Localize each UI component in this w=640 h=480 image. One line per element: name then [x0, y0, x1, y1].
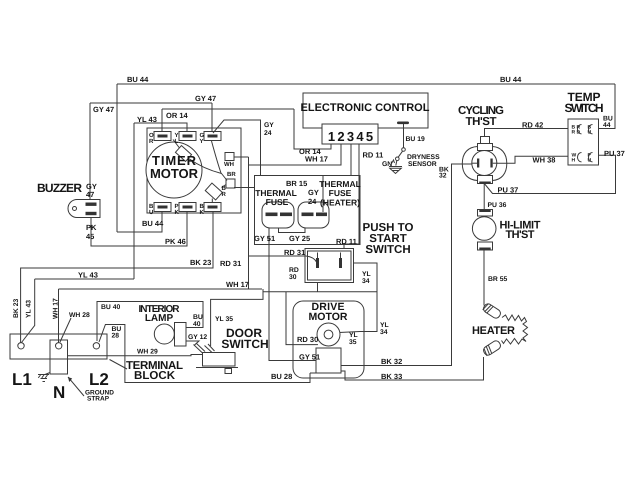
thermal fuse heater body [298, 202, 329, 228]
svg-text:K: K [175, 209, 180, 216]
thermal fuse left contacts [266, 213, 293, 217]
svg-text:GY 47: GY 47 [195, 94, 216, 103]
wire PU37 loop cycling to temp switch [484, 155, 615, 193]
timer terminal WH [225, 153, 234, 161]
timer terminal GY [204, 132, 221, 141]
svg-text:BK 23: BK 23 [13, 299, 20, 318]
dryness sensor contact top [402, 148, 406, 152]
svg-text:L: L [175, 138, 179, 145]
svg-text:24: 24 [264, 130, 272, 137]
svg-text:FUSE: FUSE [266, 197, 289, 207]
wire RD42 temp switch to cycling [485, 129, 569, 137]
svg-text:H: H [572, 158, 576, 164]
svg-text:WH 38: WH 38 [533, 156, 556, 165]
svg-text:K: K [200, 209, 205, 216]
wire GY47 vertical to buzzer [89, 103, 91, 201]
svg-text:BR 55: BR 55 [488, 276, 507, 283]
wire YL43 lower horizontal [35, 278, 134, 280]
wire WH28 label pointer to N [60, 318, 71, 342]
svg-text:GY: GY [264, 122, 274, 129]
timer terminal BU [154, 203, 171, 212]
hi-limit thermostat body [472, 217, 496, 241]
temp switch box [568, 119, 599, 165]
heater top lug [482, 302, 502, 319]
svg-text:GY 51: GY 51 [299, 353, 320, 362]
wire BR15 stub timer BR to thermal fuse box [234, 187, 255, 189]
drive motor rounded box [293, 301, 364, 378]
svg-text:BK 23: BK 23 [190, 258, 211, 267]
wire RD30 plunger stub down from push-to-start [317, 283, 319, 292]
hi-limit thermostat bottom block [478, 242, 493, 250]
timer cam follower 1 [175, 146, 191, 162]
svg-text:44: 44 [603, 122, 611, 129]
svg-text:LAMP: LAMP [145, 313, 174, 324]
svg-text:WH: WH [224, 161, 234, 168]
svg-text:FUSE: FUSE [329, 188, 352, 198]
svg-text:32: 32 [439, 173, 447, 180]
wire GY47 vertical into timer GY terminal [211, 103, 213, 131]
svg-text:RD 31: RD 31 [220, 259, 241, 268]
svg-text:BK 33: BK 33 [381, 372, 402, 381]
svg-text:Y: Y [200, 138, 204, 145]
timer terminal BK [204, 203, 221, 212]
svg-text:R: R [572, 130, 576, 136]
svg-text:YL: YL [362, 271, 371, 278]
svg-text:GY: GY [308, 188, 319, 197]
timer cam link follower 2 to BK terminal [211, 199, 213, 203]
ground strap pointer arrow [68, 377, 84, 396]
svg-text:RD 11: RD 11 [363, 151, 384, 160]
wire WH17 stub from timer WH terminal [234, 156, 249, 158]
svg-text:DRYNESS: DRYNESS [407, 154, 440, 161]
thermal fuse heater contacts [302, 213, 328, 217]
dryness sensor blade [398, 151, 402, 157]
svg-text:STRAP: STRAP [87, 396, 110, 403]
svg-text:BR 15: BR 15 [286, 179, 307, 188]
svg-text:WH 17: WH 17 [53, 298, 60, 319]
cycling thermostat top block [478, 144, 493, 151]
wire GY24 diagonal from timer GY terminal [213, 120, 261, 176]
timer cam curve follower 1 to BR [190, 159, 228, 181]
svg-text:YL 43: YL 43 [26, 300, 33, 318]
timer terminal BR [226, 179, 235, 188]
cycling thermostat bottom block [478, 176, 493, 184]
svg-text:RD: RD [289, 267, 299, 274]
svg-text:N: N [53, 383, 65, 402]
svg-text:TH'ST: TH'ST [506, 229, 535, 241]
timer terminal PK [179, 203, 196, 212]
cycling thermostat outer shell [462, 147, 507, 181]
wire YL43 long left vertical [133, 123, 135, 279]
wire BU28 riser detail [310, 372, 316, 374]
dryness sensor bar [397, 122, 409, 125]
timer cam link T2 to follower 1 [173, 140, 180, 149]
svg-text:MOTOR: MOTOR [150, 166, 199, 181]
wire BR55 hi-limit to heater [483, 250, 485, 306]
svg-text:BU 44: BU 44 [127, 75, 149, 84]
svg-text:L2: L2 [89, 370, 109, 389]
wire BK23 long horizontal [21, 211, 213, 343]
svg-text:MOTOR: MOTOR [309, 311, 348, 323]
wire RD30 vertical to drive motor [286, 292, 318, 345]
svg-text:SWITCH: SWITCH [565, 101, 604, 115]
svg-text:BU: BU [193, 314, 203, 321]
wire WH17 drop to neutral terminal [58, 289, 60, 343]
thermal fuse left body [262, 202, 294, 228]
dryness sensor lower stem [396, 161, 397, 166]
heater element zigzag [502, 315, 528, 344]
svg-text:B: B [149, 203, 154, 210]
svg-text:BUZZER: BUZZER [37, 181, 82, 195]
wire YL34 from push-to-start right plunger [354, 263, 378, 332]
svg-text:45: 45 [86, 232, 94, 241]
wire WH17 long bottom horizontal [59, 288, 263, 290]
wire RD11 from electronic control pin 5 down [344, 144, 359, 249]
wire WH17 horizontal to electronic control pin 2 [249, 144, 342, 165]
wire GY25 link between thermal fuses [279, 217, 306, 233]
svg-text:YL 35: YL 35 [215, 316, 233, 323]
wire RD31 horizontal into push-to-start switch [249, 255, 307, 257]
terminal L2 [93, 343, 99, 349]
svg-text:YL 43: YL 43 [78, 271, 98, 280]
svg-text:GN: GN [382, 161, 392, 168]
svg-text:RD 42: RD 42 [522, 121, 543, 130]
door switch body [203, 353, 236, 367]
door switch base [196, 367, 238, 369]
svg-text:PK 46: PK 46 [165, 237, 186, 246]
timer terminal letters [149, 132, 236, 216]
svg-text:WH 29: WH 29 [137, 349, 158, 356]
terminal block pointer [110, 360, 128, 370]
wire GY47 horizontal [90, 102, 212, 104]
door switch lever [194, 343, 215, 353]
electronic control box [303, 93, 428, 128]
wire YL35 segment from door switch up [211, 289, 263, 346]
wire OR14 horizontal [162, 108, 294, 110]
wire YL34 stub into motor [339, 332, 360, 333]
svg-text:OR 14: OR 14 [166, 111, 189, 120]
svg-text:G: G [200, 132, 205, 139]
drive motor inner circle [324, 330, 333, 339]
svg-text:YL: YL [380, 322, 389, 329]
wire PU36 cycling to hi-limit [483, 184, 485, 210]
svg-text:HEATER: HEATER [472, 325, 515, 337]
interior lamp base [175, 323, 187, 347]
wire BU28 from L2 [99, 325, 310, 383]
thermal fuse enclosure box [255, 176, 361, 245]
cycling thermostat stem [481, 137, 490, 144]
terminal L1 [18, 343, 24, 349]
wire BU44 left vertical [116, 84, 118, 232]
heater bottom lug [482, 339, 502, 356]
svg-text:TH'ST: TH'ST [466, 116, 497, 128]
svg-text:B: B [200, 203, 205, 210]
svg-text:PU 37: PU 37 [498, 186, 519, 195]
svg-text:ELECTRONIC CONTROL: ELECTRONIC CONTROL [301, 102, 430, 114]
svg-text:24: 24 [308, 197, 317, 206]
svg-text:30: 30 [289, 274, 297, 281]
svg-text:GY 47: GY 47 [93, 105, 114, 114]
svg-text:WH 17: WH 17 [305, 155, 328, 164]
hi-limit thermostat top block [478, 210, 493, 217]
wire BK32 from centrifugal switch to cycling thermostat [341, 164, 473, 366]
svg-text:35: 35 [349, 339, 357, 346]
wire GY51 vertical from thermal fuse [269, 228, 316, 361]
svg-text:RD 31: RD 31 [284, 248, 305, 257]
svg-text:BU 44: BU 44 [142, 219, 164, 228]
electronic control pins box [322, 124, 378, 144]
dryness sensor GN tick [392, 160, 395, 164]
svg-text:SWITCH: SWITCH [221, 337, 268, 351]
drive motor circle [317, 323, 340, 346]
svg-text:40: 40 [193, 321, 201, 328]
svg-text:47: 47 [86, 190, 94, 199]
svg-text:O: O [149, 132, 154, 139]
terminal block body [10, 334, 107, 359]
svg-text:BLOCK: BLOCK [134, 370, 176, 382]
svg-text:BU 19: BU 19 [406, 136, 425, 143]
interior lamp bulb [154, 324, 174, 344]
ground strap symbol [38, 373, 50, 382]
svg-text:SENSOR: SENSOR [408, 161, 437, 168]
wire WH38 cycling to temp switch [497, 156, 568, 163]
svg-text:R: R [149, 138, 154, 145]
cycling thermostat contacts [472, 159, 498, 168]
svg-text:U: U [149, 209, 153, 216]
svg-text:SWITCH: SWITCH [365, 244, 410, 256]
door switch foot [225, 369, 232, 374]
wire pin3 vertical to thermal fuse box [350, 144, 352, 176]
wire OR14 vertical into timer OR terminal [161, 109, 163, 131]
svg-text:28: 28 [112, 333, 120, 340]
svg-text:34: 34 [380, 329, 388, 336]
dryness sensor stem [403, 124, 405, 148]
timer terminal YL [179, 132, 196, 141]
svg-text:(HEATER): (HEATER) [320, 198, 360, 208]
terminal block neutral box [50, 340, 68, 374]
svg-text:BU 28: BU 28 [271, 372, 292, 381]
wire RD31 arc inside push-to-start [306, 256, 317, 262]
svg-text:PU 36: PU 36 [488, 202, 507, 209]
timer cam link follower 2 to BR [222, 185, 227, 188]
svg-text:P: P [175, 203, 179, 210]
svg-text:Y: Y [175, 132, 179, 139]
svg-text:34: 34 [362, 278, 370, 285]
wire GY24 drop inside thermal box [322, 176, 324, 213]
wire GY12 lamp to door lever [186, 341, 199, 346]
svg-text:RD 30: RD 30 [297, 335, 318, 344]
wire WH29 neutral to door switch [68, 355, 203, 356]
svg-text:RD 11: RD 11 [336, 237, 357, 246]
temp switch terminals [572, 125, 592, 164]
svg-text:R: R [222, 191, 227, 198]
wire BU44 right vertical to temp switch [599, 84, 616, 129]
dryness sensor contact bottom [396, 157, 400, 161]
wire PK45 buzzer bottom [91, 211, 187, 246]
terminal N [56, 343, 62, 349]
wire YL43 drop to terminal block [22, 279, 35, 343]
wire BK33 from centrifugal switch to heater [341, 357, 484, 380]
wire WH17 main vertical [248, 157, 250, 289]
buzzer [68, 200, 100, 218]
timer terminal OR [154, 132, 171, 141]
push-to-start plunger 2 [339, 253, 342, 269]
svg-text:BK 32: BK 32 [381, 357, 402, 366]
svg-text:GY 25: GY 25 [289, 234, 310, 243]
svg-text:B: B [222, 185, 227, 192]
svg-text:GY 51: GY 51 [254, 234, 275, 243]
timer motor circle [146, 142, 202, 198]
svg-text:YL: YL [349, 332, 358, 339]
svg-text:PU 37: PU 37 [604, 149, 625, 158]
wire YL43 top jog at timer YL terminal [134, 123, 187, 131]
timer cam follower 2 [205, 183, 222, 200]
svg-text:BU 40: BU 40 [101, 304, 120, 311]
svg-text:BU 44: BU 44 [500, 75, 522, 84]
timer cam curve from GY terminal [212, 141, 222, 173]
wire OR14 vertical and stub to electronic control pin 1 [294, 109, 331, 149]
svg-text:PK: PK [86, 223, 97, 232]
svg-text:BR: BR [227, 171, 236, 178]
svg-text:WH 17: WH 17 [226, 280, 249, 289]
drive motor centrifugal switch [316, 348, 341, 373]
svg-text:L1: L1 [12, 370, 32, 389]
push-to-start switch box inner [308, 251, 352, 280]
timer motor box [147, 128, 241, 213]
push-to-start switch box outer [305, 249, 354, 283]
svg-text:GY 12: GY 12 [188, 334, 207, 341]
cycling thermostat body circle [472, 151, 497, 176]
push-to-start plunger 1 [316, 253, 319, 269]
svg-text:YL 43: YL 43 [137, 115, 157, 124]
wire BU44 bottom jog to timer BU terminal [117, 211, 162, 232]
svg-text:12345: 12345 [328, 129, 373, 144]
wire BU44 top horizontal [117, 83, 615, 85]
dryness sensor ground [389, 167, 402, 174]
svg-text:WH 28: WH 28 [69, 312, 90, 319]
wire BU40 loop interior lamp [97, 302, 203, 342]
